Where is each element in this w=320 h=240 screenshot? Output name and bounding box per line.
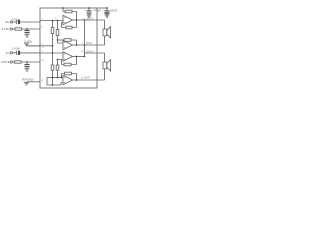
ground (under C3) [25,35,30,38]
node OUT1- tap [84,44,86,46]
capacitor C6 (470uF electrolytic) [105,8,110,14]
svg-text:8: 8 [41,80,43,82]
capacitor C1 (input 0.47uF) [15,20,17,24]
node VCC junction at C5 [88,7,90,9]
wire VCC rail extension [97,7,107,9]
wire OUT2+ jog [85,53,98,57]
wire rail to R5 [63,8,65,12]
wire speaker to OUT2- [97,69,105,80]
wire node to R7 [58,39,65,41]
svg-text:(PW-GND): (PW-GND) [22,79,34,82]
speaker LS1 [103,27,111,38]
node MUTE RC junction [26,61,28,63]
terminal IN1 [10,21,12,23]
svg-text:+: + [102,9,104,12]
resistor R11 (A4 feedback) [65,72,72,75]
wire S-GND to pin [27,45,41,47]
node [61,77,63,79]
svg-text:100nF: 100nF [110,9,118,13]
wire A2 output [73,44,98,46]
resistor R2 (bias divider) [57,21,59,30]
node bus-R1 junction [52,20,54,22]
wire [12,52,16,54]
svg-text:3: 3 [41,51,43,53]
terminal MUTE [10,61,12,63]
wire A1 inv input [62,22,67,27]
wire speaker to OUT1- [97,36,105,45]
wire [20,21,40,23]
capacitor C5 (100nF supply decoupling) [87,8,92,14]
IC box U1 (TDA7297 outline) [40,8,97,88]
wire A3 inv input [58,60,65,65]
ground (under C6) [105,15,110,18]
node rail tap [62,7,64,9]
terminal IN2 [10,52,12,54]
resistor R1 (bias divider) [52,21,54,28]
node A1 output junction [76,19,78,21]
wire loop verticals [47,78,53,86]
node bottom junction [52,84,54,86]
capacitor C2 (input 0.47uF) [15,51,17,55]
resistor R8 (A3 feedback) [64,63,71,66]
svg-text:IN+: IN+ [5,20,10,24]
resistor R3 (ST-BY series) [15,28,22,30]
node junction [57,77,59,79]
wire R11 to output [72,74,77,81]
node IN2-divider junction [52,52,54,54]
wire [22,28,41,30]
wire bridge vertical [84,20,86,57]
op-amp A4 [63,75,73,84]
wire IN1 internal bus [40,21,63,23]
resistor R9 (divider 2) [52,53,54,65]
wire [12,61,14,63]
wire IN2 to A3 [40,52,63,54]
node bridge junction [84,56,86,58]
wire R7 to output [71,40,77,45]
wire [20,52,40,54]
svg-text:MUTE: MUTE [1,60,9,64]
op-amp A3 [63,52,73,61]
svg-text:OUT-: OUT- [84,76,90,80]
capacitor C3 (ST-BY 10uF) [24,29,29,34]
wire R5 to output [72,12,77,21]
capacitor C4 (MUTE 10uF) [24,62,29,68]
ground (S-GND) [24,43,29,46]
wire R6 to output [72,20,77,28]
node divider junction [52,45,54,47]
wire S-GND internal [40,45,53,47]
svg-text:0.47µF: 0.47µF [12,46,21,50]
wire R11 left leg [62,74,65,78]
svg-text:2: 2 [55,18,57,20]
node A3 inv junction [57,59,59,61]
node bus-R2 junction [57,20,59,22]
ground (PW-GND) [24,82,29,85]
resistor R7 (A2 feedback) [64,39,71,42]
wire A4 upper input bus [47,77,63,79]
svg-text:ST-BY: ST-BY [1,27,9,31]
node A3 output junction [76,56,78,58]
svg-text:6: 6 [41,26,43,28]
resistor R4 (MUTE series) [15,61,22,63]
resistor R6 (A1 feedback) [66,26,72,29]
svg-text:OUT+: OUT+ [86,49,93,53]
wire [12,21,16,23]
svg-text:14: 14 [81,51,84,53]
ground (under C4) [25,69,30,72]
svg-text:9: 9 [42,47,44,49]
resistor R10 (divider 2) [57,60,59,66]
op-amp input marks [64,17,66,82]
svg-text:470µF: 470µF [93,9,101,13]
wire PW-GND to pin [27,81,41,83]
svg-text:OUT+: OUT+ [86,17,93,21]
node A4 output junction [76,79,78,81]
wire A2 inv input [58,40,64,43]
wire A4 output [73,79,98,81]
op-amp A1 [63,15,73,24]
node junction [52,77,54,79]
node A2 output junction [76,44,78,46]
svg-text:10: 10 [41,60,44,62]
op-amp A2 [63,40,73,49]
wire OUT2+ to speaker [97,53,105,62]
speaker LS2 [103,60,111,71]
wire A1 output [73,19,98,21]
wire bottom link [47,83,63,86]
wire OUT1+ to speaker [97,20,105,29]
svg-text:OUT-: OUT- [86,41,92,45]
node ST-BY RC junction [26,28,28,30]
wire [21,61,40,63]
node OUT1+ tap [84,19,86,21]
ground (under C5) [87,15,92,18]
node VCC junction at C6 [106,7,108,9]
wire A3 output [73,56,85,58]
wire R8 to output [71,57,77,65]
svg-text:IN-: IN- [6,51,10,55]
wire [12,28,15,30]
node A2 inv node [57,39,59,41]
terminal ST-BY [10,28,12,30]
resistor R5 (A1 top feedback) [65,10,72,13]
svg-text:+: + [84,9,86,12]
